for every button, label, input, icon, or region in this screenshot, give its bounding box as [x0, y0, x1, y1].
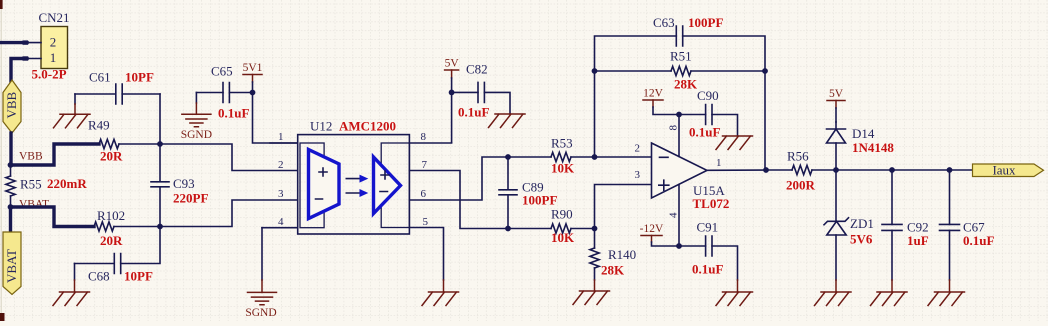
wire [595, 156, 652, 158]
capacitor C90 [679, 114, 706, 116]
svg-text:VBB: VBB [4, 91, 19, 118]
port Iaux [973, 164, 1044, 177]
junction [8, 162, 14, 168]
capacitor C93 [159, 144, 161, 181]
wire [119, 143, 160, 145]
svg-text:100PF: 100PF [522, 193, 557, 208]
junction [592, 68, 598, 74]
wire [160, 200, 298, 227]
junction [157, 224, 163, 230]
wire [409, 171, 508, 229]
resistor R56 [766, 169, 792, 171]
svg-text:TL072: TL072 [693, 196, 730, 211]
ground [737, 280, 739, 292]
isolation amplifier U12 [298, 135, 410, 234]
svg-text:5V: 5V [445, 58, 460, 70]
junction [592, 154, 598, 160]
svg-text:5: 5 [423, 216, 429, 228]
capacitor C92 [891, 170, 893, 224]
svg-text:5.0-2P: 5.0-2P [31, 67, 66, 82]
capacitor C82 [452, 91, 478, 93]
port VBB [3, 80, 21, 133]
wire [764, 71, 766, 170]
output wire [707, 169, 766, 171]
capacitor C67 [949, 170, 951, 224]
svg-text:5V: 5V [829, 88, 844, 100]
svg-text:20R: 20R [100, 233, 123, 248]
svg-text:20R: 20R [100, 149, 123, 164]
svg-text:Iaux: Iaux [992, 162, 1016, 177]
capacitor C61 [75, 93, 116, 95]
wire [595, 36, 677, 157]
svg-text:C90: C90 [697, 88, 719, 103]
junction [676, 112, 682, 118]
resistor R49 [99, 139, 119, 148]
power 5V [827, 100, 845, 102]
svg-text:10PF: 10PF [124, 269, 153, 284]
svg-text:VBB: VBB [19, 151, 43, 163]
svg-text:R51: R51 [670, 49, 692, 64]
junction [947, 167, 953, 173]
resistor R51 [595, 70, 672, 72]
capacitor C91 [679, 245, 706, 247]
svg-text:R102: R102 [97, 208, 125, 223]
svg-text:2: 2 [50, 34, 57, 49]
svg-text:220PF: 220PF [173, 191, 208, 206]
svg-text:5V6: 5V6 [850, 232, 873, 247]
svg-text:7: 7 [422, 159, 428, 171]
junction [762, 68, 768, 74]
resistor R55 [6, 176, 15, 196]
wire [451, 92, 453, 142]
power 5V1 [243, 74, 262, 76]
ground [594, 280, 596, 291]
resistor R140 [594, 229, 596, 249]
svg-text:D14: D14 [852, 126, 875, 141]
capacitor C63 [676, 26, 682, 46]
svg-text:1: 1 [50, 50, 57, 65]
resistor R102 [94, 222, 114, 231]
svg-text:0.1uF: 0.1uF [689, 125, 720, 140]
junction [592, 226, 598, 232]
svg-text:220mR: 220mR [47, 176, 87, 191]
svg-text:0.1uF: 0.1uF [218, 106, 249, 121]
junction [250, 90, 256, 96]
svg-text:28K: 28K [674, 77, 698, 92]
svg-text:28K: 28K [601, 263, 625, 278]
svg-text:C93: C93 [173, 176, 195, 191]
op-amp U15A [652, 143, 708, 198]
wire [9, 207, 12, 232]
wire [160, 144, 298, 171]
svg-text:R49: R49 [88, 118, 110, 133]
svg-text:4: 4 [278, 216, 284, 228]
svg-text:-12V: -12V [640, 223, 664, 235]
wire [409, 228, 443, 281]
ground SGND [195, 93, 197, 104]
wire [11, 59, 27, 82]
signal arrows [346, 179, 360, 193]
svg-text:3: 3 [278, 188, 284, 200]
svg-text:4: 4 [668, 212, 680, 218]
svg-text:1uF: 1uF [907, 233, 929, 248]
sheet border [0, 0, 2, 321]
wire [114, 226, 160, 228]
svg-text:0.1uF: 0.1uF [692, 262, 723, 277]
diode D14 [835, 122, 837, 129]
svg-text:1N4148: 1N4148 [852, 140, 894, 155]
pin 4 wire [678, 185, 680, 246]
svg-text:10PF: 10PF [125, 70, 154, 85]
capacitor C89 [507, 157, 509, 189]
svg-text:10K: 10K [551, 230, 575, 245]
ground [74, 264, 76, 281]
svg-text:VBAT: VBAT [4, 249, 19, 283]
power 5V [445, 69, 459, 71]
wire [159, 94, 161, 144]
pin 1 [270, 142, 298, 144]
svg-text:SGND: SGND [245, 307, 276, 319]
junction [449, 90, 455, 96]
junction [676, 243, 682, 249]
ground [443, 280, 445, 292]
ground [489, 114, 526, 128]
svg-text:R90: R90 [551, 207, 573, 222]
wire [11, 207, 95, 227]
junction [505, 154, 511, 160]
svg-text:SGND: SGND [181, 129, 212, 141]
junction [763, 167, 769, 173]
svg-text:10K: 10K [551, 161, 575, 176]
pin 8 [409, 142, 451, 144]
svg-text:CN21: CN21 [38, 10, 69, 25]
svg-text:R140: R140 [608, 247, 636, 262]
power 12V [643, 99, 663, 101]
wire [595, 185, 652, 229]
svg-text:C68: C68 [88, 269, 110, 284]
svg-text:C61: C61 [89, 70, 111, 85]
port VBAT [3, 232, 21, 295]
svg-text:R56: R56 [787, 149, 809, 164]
junction [889, 167, 895, 173]
junction [505, 226, 511, 232]
ground [74, 94, 76, 104]
svg-text:R53: R53 [551, 136, 573, 151]
capacitor C68 [75, 263, 115, 265]
svg-text:C91: C91 [697, 220, 719, 235]
resistor R53 [508, 156, 551, 158]
svg-text:8: 8 [668, 125, 680, 131]
svg-text:3: 3 [635, 169, 641, 181]
svg-text:1: 1 [716, 157, 722, 169]
junction [8, 204, 14, 210]
pin 4 [262, 227, 298, 229]
svg-text:R55: R55 [20, 177, 42, 192]
wire [836, 169, 973, 171]
wire [253, 93, 298, 144]
connector CN21 [41, 27, 68, 69]
wire [9, 133, 12, 165]
svg-text:12V: 12V [643, 88, 664, 100]
svg-text:8: 8 [421, 131, 427, 143]
power -12V [641, 235, 662, 237]
pin 8 wire [678, 115, 680, 157]
capacitor C65 [196, 92, 223, 94]
svg-text:0.1uF: 0.1uF [963, 233, 994, 248]
ground [891, 280, 893, 292]
ground [716, 136, 753, 150]
svg-text:200R: 200R [786, 178, 816, 193]
resistor R90 [508, 228, 551, 230]
svg-text:2: 2 [635, 143, 641, 155]
svg-text:0.1uF: 0.1uF [458, 105, 489, 120]
wire [261, 228, 263, 280]
svg-text:AMC1200: AMC1200 [339, 119, 396, 134]
junction [833, 167, 839, 173]
svg-text:C65: C65 [211, 64, 233, 79]
wire [409, 157, 508, 200]
svg-text:C63: C63 [653, 15, 675, 30]
zener diode ZD1 [835, 170, 837, 221]
svg-text:5V1: 5V1 [243, 62, 263, 74]
ground [835, 280, 837, 292]
svg-text:2: 2 [278, 159, 284, 171]
wire [0, 41, 27, 44]
ground [949, 280, 951, 292]
svg-text:1: 1 [278, 131, 284, 143]
svg-text:ZD1: ZD1 [850, 216, 874, 231]
svg-text:100PF: 100PF [688, 15, 723, 30]
wire [11, 144, 100, 165]
ground SGND [261, 280, 263, 292]
junction [157, 141, 163, 147]
svg-text:C82: C82 [466, 62, 488, 77]
svg-text:6: 6 [421, 188, 427, 200]
svg-text:U12: U12 [310, 119, 332, 134]
